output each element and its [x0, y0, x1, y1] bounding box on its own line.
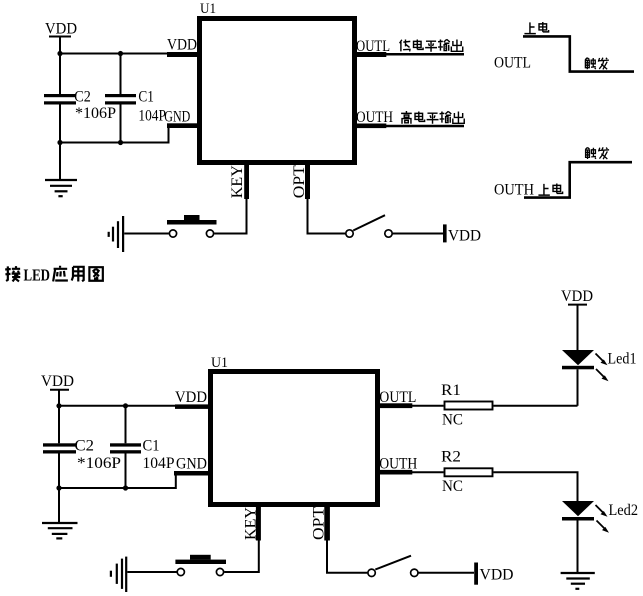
power flag VDD top-left — [45, 21, 77, 54]
capacitor C2 bottom circuit — [43, 406, 121, 488]
svg-text:NC: NC — [442, 412, 463, 429]
capacitor C2 — [44, 54, 116, 143]
pin OPT of U1 bottom — [310, 506, 330, 541]
wire switch to VDD terminal bottom — [418, 572, 474, 574]
svg-text:OPT: OPT — [310, 507, 327, 540]
push button S1 top — [167, 215, 217, 237]
svg-text:GND: GND — [176, 456, 207, 473]
wire OUTL to R1 — [412, 405, 444, 407]
svg-text:Led2: Led2 — [609, 502, 639, 519]
chassis ground top — [109, 216, 123, 252]
svg-text:C2: C2 — [75, 437, 95, 454]
svg-text:OUTH: OUTH — [356, 109, 393, 126]
pin GND of U1 bottom — [174, 456, 208, 476]
svg-text:R2: R2 — [441, 449, 461, 466]
svg-text:VDD: VDD — [448, 228, 481, 245]
label high-level-output 高电平输出 — [401, 111, 464, 124]
svg-text:104P: 104P — [143, 455, 175, 472]
pin VDD of U1 bottom — [175, 389, 208, 409]
svg-text:NC: NC — [442, 478, 463, 495]
ground earth bottom-left — [42, 488, 78, 538]
svg-text:VDD: VDD — [41, 373, 74, 390]
svg-text:VDD: VDD — [175, 389, 207, 406]
junction bottom rail x59 bottom circuit — [56, 485, 61, 490]
svg-text:LED: LED — [24, 266, 51, 285]
svg-text:U1: U1 — [211, 355, 228, 371]
junction bottom rail x60 — [57, 140, 62, 145]
pin OUTH of U1 bottom — [379, 456, 417, 475]
svg-text:OUTL: OUTL — [379, 389, 416, 406]
resistor R2 — [441, 449, 493, 496]
svg-text:104P: 104P — [138, 108, 166, 125]
LED Led2 — [562, 501, 638, 572]
wire VDD rail row1 bottom — [59, 405, 176, 407]
wire OPT to switch bottom — [327, 541, 367, 573]
wire R2 to LED2 — [494, 472, 578, 501]
pin OUTL of U1 — [356, 38, 390, 57]
label 触发 top waveform — [585, 58, 609, 70]
junction bottom rail C1 — [118, 140, 123, 145]
LED Led1 — [562, 350, 637, 406]
svg-text:U1: U1 — [200, 1, 216, 17]
wire OPT to switch — [308, 199, 346, 234]
svg-text:OUTH: OUTH — [379, 456, 417, 473]
power flag VDD bottom-left — [41, 373, 74, 406]
svg-text:OUTH: OUTH — [494, 182, 534, 199]
svg-text:OUTL: OUTL — [356, 38, 390, 55]
pin VDD of U1 — [167, 37, 197, 58]
heading 接LED应用图 — [5, 266, 103, 285]
junction bottom rail C1 bottom circuit — [123, 485, 128, 490]
label 上电 bottom waveform — [538, 183, 562, 195]
pin GND of U1 — [164, 108, 197, 128]
pin OUTL of U1 bottom — [379, 389, 416, 408]
pin KEY of U1 bottom — [243, 506, 261, 541]
svg-text:*106P: *106P — [77, 455, 121, 472]
svg-text:VDD: VDD — [45, 21, 77, 38]
resistor R1 — [441, 382, 493, 429]
waveform OUTH — [524, 162, 632, 197]
push button S1 bottom — [175, 555, 226, 576]
wire R1 to LED1 — [494, 405, 578, 407]
wire OUTL output — [386, 53, 464, 56]
switch S2 top — [346, 215, 392, 237]
IC U1 bottom circuit — [211, 355, 378, 505]
svg-text:KEY: KEY — [243, 507, 260, 540]
pin KEY of U1 — [229, 164, 249, 199]
timing diagram OUTL label 上电 — [524, 22, 548, 34]
wire bottom rail to GND pin bottom circuit — [59, 476, 176, 489]
chassis ground bottom — [111, 557, 126, 592]
wire KEY to push button — [214, 199, 246, 234]
svg-text:GND: GND — [164, 108, 190, 125]
label low-level-output 低电平输出 — [400, 39, 463, 51]
svg-text:R1: R1 — [441, 382, 461, 399]
svg-text:VDD: VDD — [167, 37, 197, 54]
wire chassis ground to button bottom — [127, 571, 176, 573]
capacitor C1 — [105, 54, 166, 143]
svg-text:*106P: *106P — [75, 105, 116, 122]
svg-text:OPT: OPT — [291, 165, 308, 198]
svg-text:OUTL: OUTL — [494, 55, 531, 72]
wire OUTH output — [386, 125, 464, 128]
wire chassis ground to button — [124, 233, 169, 235]
wire VDD rail row1 — [60, 53, 168, 55]
svg-text:C1: C1 — [138, 89, 154, 106]
power flag VDD for LED1 — [561, 288, 593, 350]
svg-text:VDD: VDD — [561, 288, 593, 305]
svg-text:VDD: VDD — [480, 567, 514, 584]
label 触发 bottom waveform — [585, 147, 609, 159]
wire KEY to push button bottom — [224, 541, 259, 573]
capacitor C1 bottom circuit — [110, 406, 175, 488]
ground earth LED2 — [561, 573, 595, 589]
junction bottom circuit C1 top — [123, 403, 128, 408]
wire OUTH to R2 — [412, 471, 444, 473]
wire switch to VDD terminal — [393, 233, 443, 235]
ground earth top-left — [45, 143, 77, 197]
VDD terminal bottom switch — [474, 563, 513, 585]
svg-text:C2: C2 — [74, 89, 91, 106]
junction at C1 top — [118, 51, 123, 56]
svg-text:KEY: KEY — [229, 165, 246, 198]
svg-text:Led1: Led1 — [608, 351, 637, 368]
switch S2 bottom — [368, 556, 418, 577]
IC U1 top circuit — [200, 1, 355, 163]
waveform OUTL — [523, 36, 634, 71]
VDD terminal top switch — [443, 224, 481, 244]
svg-text:C1: C1 — [143, 437, 160, 454]
junction bottom circuit VDD rail — [56, 403, 61, 408]
junction at VDD rail x60 — [57, 51, 62, 56]
wire bottom rail to GND pin — [60, 128, 169, 143]
pin OUTH of U1 — [356, 109, 393, 128]
pin OPT of U1 — [291, 164, 310, 199]
